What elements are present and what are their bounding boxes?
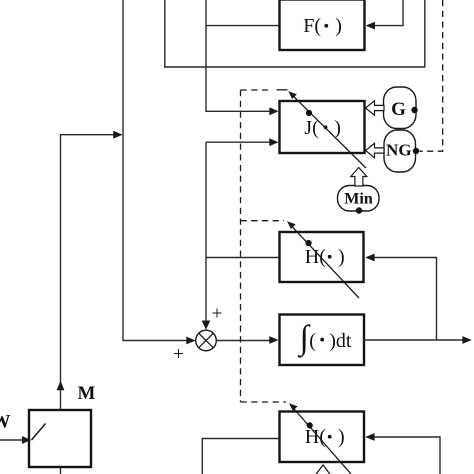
label H1 H(.) (305, 246, 345, 268)
label Min (344, 191, 373, 208)
svg-text:): ) (334, 117, 341, 139)
arrowhead output at right edge (462, 336, 471, 344)
label G (391, 99, 406, 120)
wire: H1 output to bus D (206, 257, 279, 259)
wire: W input into switch box (0, 439, 25, 441)
wire: vertical bus A from top to summer (123, 0, 187, 341)
wire: integrator output to right edge (364, 339, 465, 341)
block J (280, 101, 365, 153)
diagonal adaptation arrow through H1 (287, 221, 359, 298)
wire: bus C from top down to J input 1 (206, 0, 272, 111)
wire: bus D from J input 2 down to summer top, with H1 output tee (205, 142, 207, 322)
svg-text:W: W (0, 412, 11, 433)
label: plus sign for top summer input (212, 304, 223, 325)
switch lever inside box (32, 424, 46, 441)
arrowhead into switch box (22, 436, 31, 444)
svg-text:): ) (338, 426, 345, 448)
node dot at Min bottom (356, 207, 362, 213)
arrowhead into J input 2 (269, 138, 278, 146)
label NG (386, 141, 412, 160)
summer junction circle with X (196, 330, 217, 351)
wire: summer output to integrator (216, 340, 271, 342)
arrowhead into F right edge (366, 22, 375, 30)
arrowhead into H2 right edge (365, 433, 374, 441)
svg-text:H(: H( (305, 426, 326, 448)
svg-text:): ) (335, 15, 342, 37)
svg-text:+: + (212, 304, 223, 325)
node dot at NG right (413, 148, 419, 154)
block H2 (280, 412, 365, 463)
node dot on H1 diagonal (306, 240, 312, 246)
blob Min (338, 186, 380, 212)
node dot at G right (411, 107, 417, 113)
wire: F output to bus C (206, 25, 279, 27)
node dot on J diagonal (306, 110, 312, 116)
node dot on H2 diagonal (307, 422, 313, 428)
label J(.) (304, 117, 341, 139)
arrowhead of M wire joining bus A (113, 131, 122, 139)
svg-text:): ) (338, 246, 345, 268)
wire: J input 2 horizontal (206, 141, 272, 143)
wire: M feedback from switch box up and right into bus A (61, 135, 117, 410)
arrowhead up on M wire (57, 381, 65, 391)
label F(.) (303, 15, 342, 37)
svg-text:)dt: )dt (329, 330, 352, 352)
dashed line from top right down to NG (420, 0, 443, 151)
blob NG (384, 130, 416, 172)
arrowhead into integrator (269, 336, 278, 344)
arrowhead into H1 right edge (365, 254, 374, 262)
dashed adaptation bus vertical (240, 90, 242, 402)
label M (78, 383, 96, 404)
svg-text:G: G (391, 99, 406, 120)
wire: switch box bottom stub (60, 467, 62, 474)
wire: H2 output down to bottom edge (202, 439, 279, 474)
wire: output tap up to H1 input (372, 258, 437, 341)
svg-text:H(: H( (305, 246, 326, 268)
label: plus sign for left summer input (173, 344, 184, 365)
arrowhead into J input 1 (269, 107, 278, 115)
label W (cut off at left edge) (0, 412, 11, 433)
block H1 (280, 232, 364, 282)
diagonal adaptation arrow through J (288, 91, 366, 168)
blob G (384, 87, 417, 129)
svg-text:+: + (173, 344, 184, 365)
hollow arrow NG to J (366, 143, 385, 157)
hollow arrow G to J (366, 101, 385, 115)
wire: H2 input from bottom right (372, 437, 440, 474)
label integral(.)dt (298, 320, 352, 359)
block integrator (280, 315, 365, 366)
svg-text:(: ( (309, 330, 316, 352)
svg-text:M: M (78, 383, 96, 404)
wire: F input from top right (372, 0, 403, 26)
arrowhead into summer top (202, 321, 211, 330)
block switch (W to M) (29, 410, 91, 467)
svg-text:F(: F( (303, 15, 321, 37)
diagonal adaptation arrow through H2 (289, 403, 351, 474)
svg-text:NG: NG (386, 141, 412, 160)
dashed branch to J diagonal arrow (241, 89, 288, 91)
block F (280, 0, 365, 50)
dashed branch to H1 diagonal arrow (241, 220, 285, 222)
dashed branch to H2 diagonal arrow (241, 401, 287, 403)
hollow arrow below H2 (cut off) (315, 465, 332, 474)
svg-text:Min: Min (344, 191, 373, 208)
label H2 H(.) (305, 426, 345, 448)
wire: top link B (left stub down, across, up right stub) (165, 0, 425, 67)
hollow arrow Min up to J diagonal (351, 168, 367, 187)
arrowhead into summer left (186, 337, 195, 345)
